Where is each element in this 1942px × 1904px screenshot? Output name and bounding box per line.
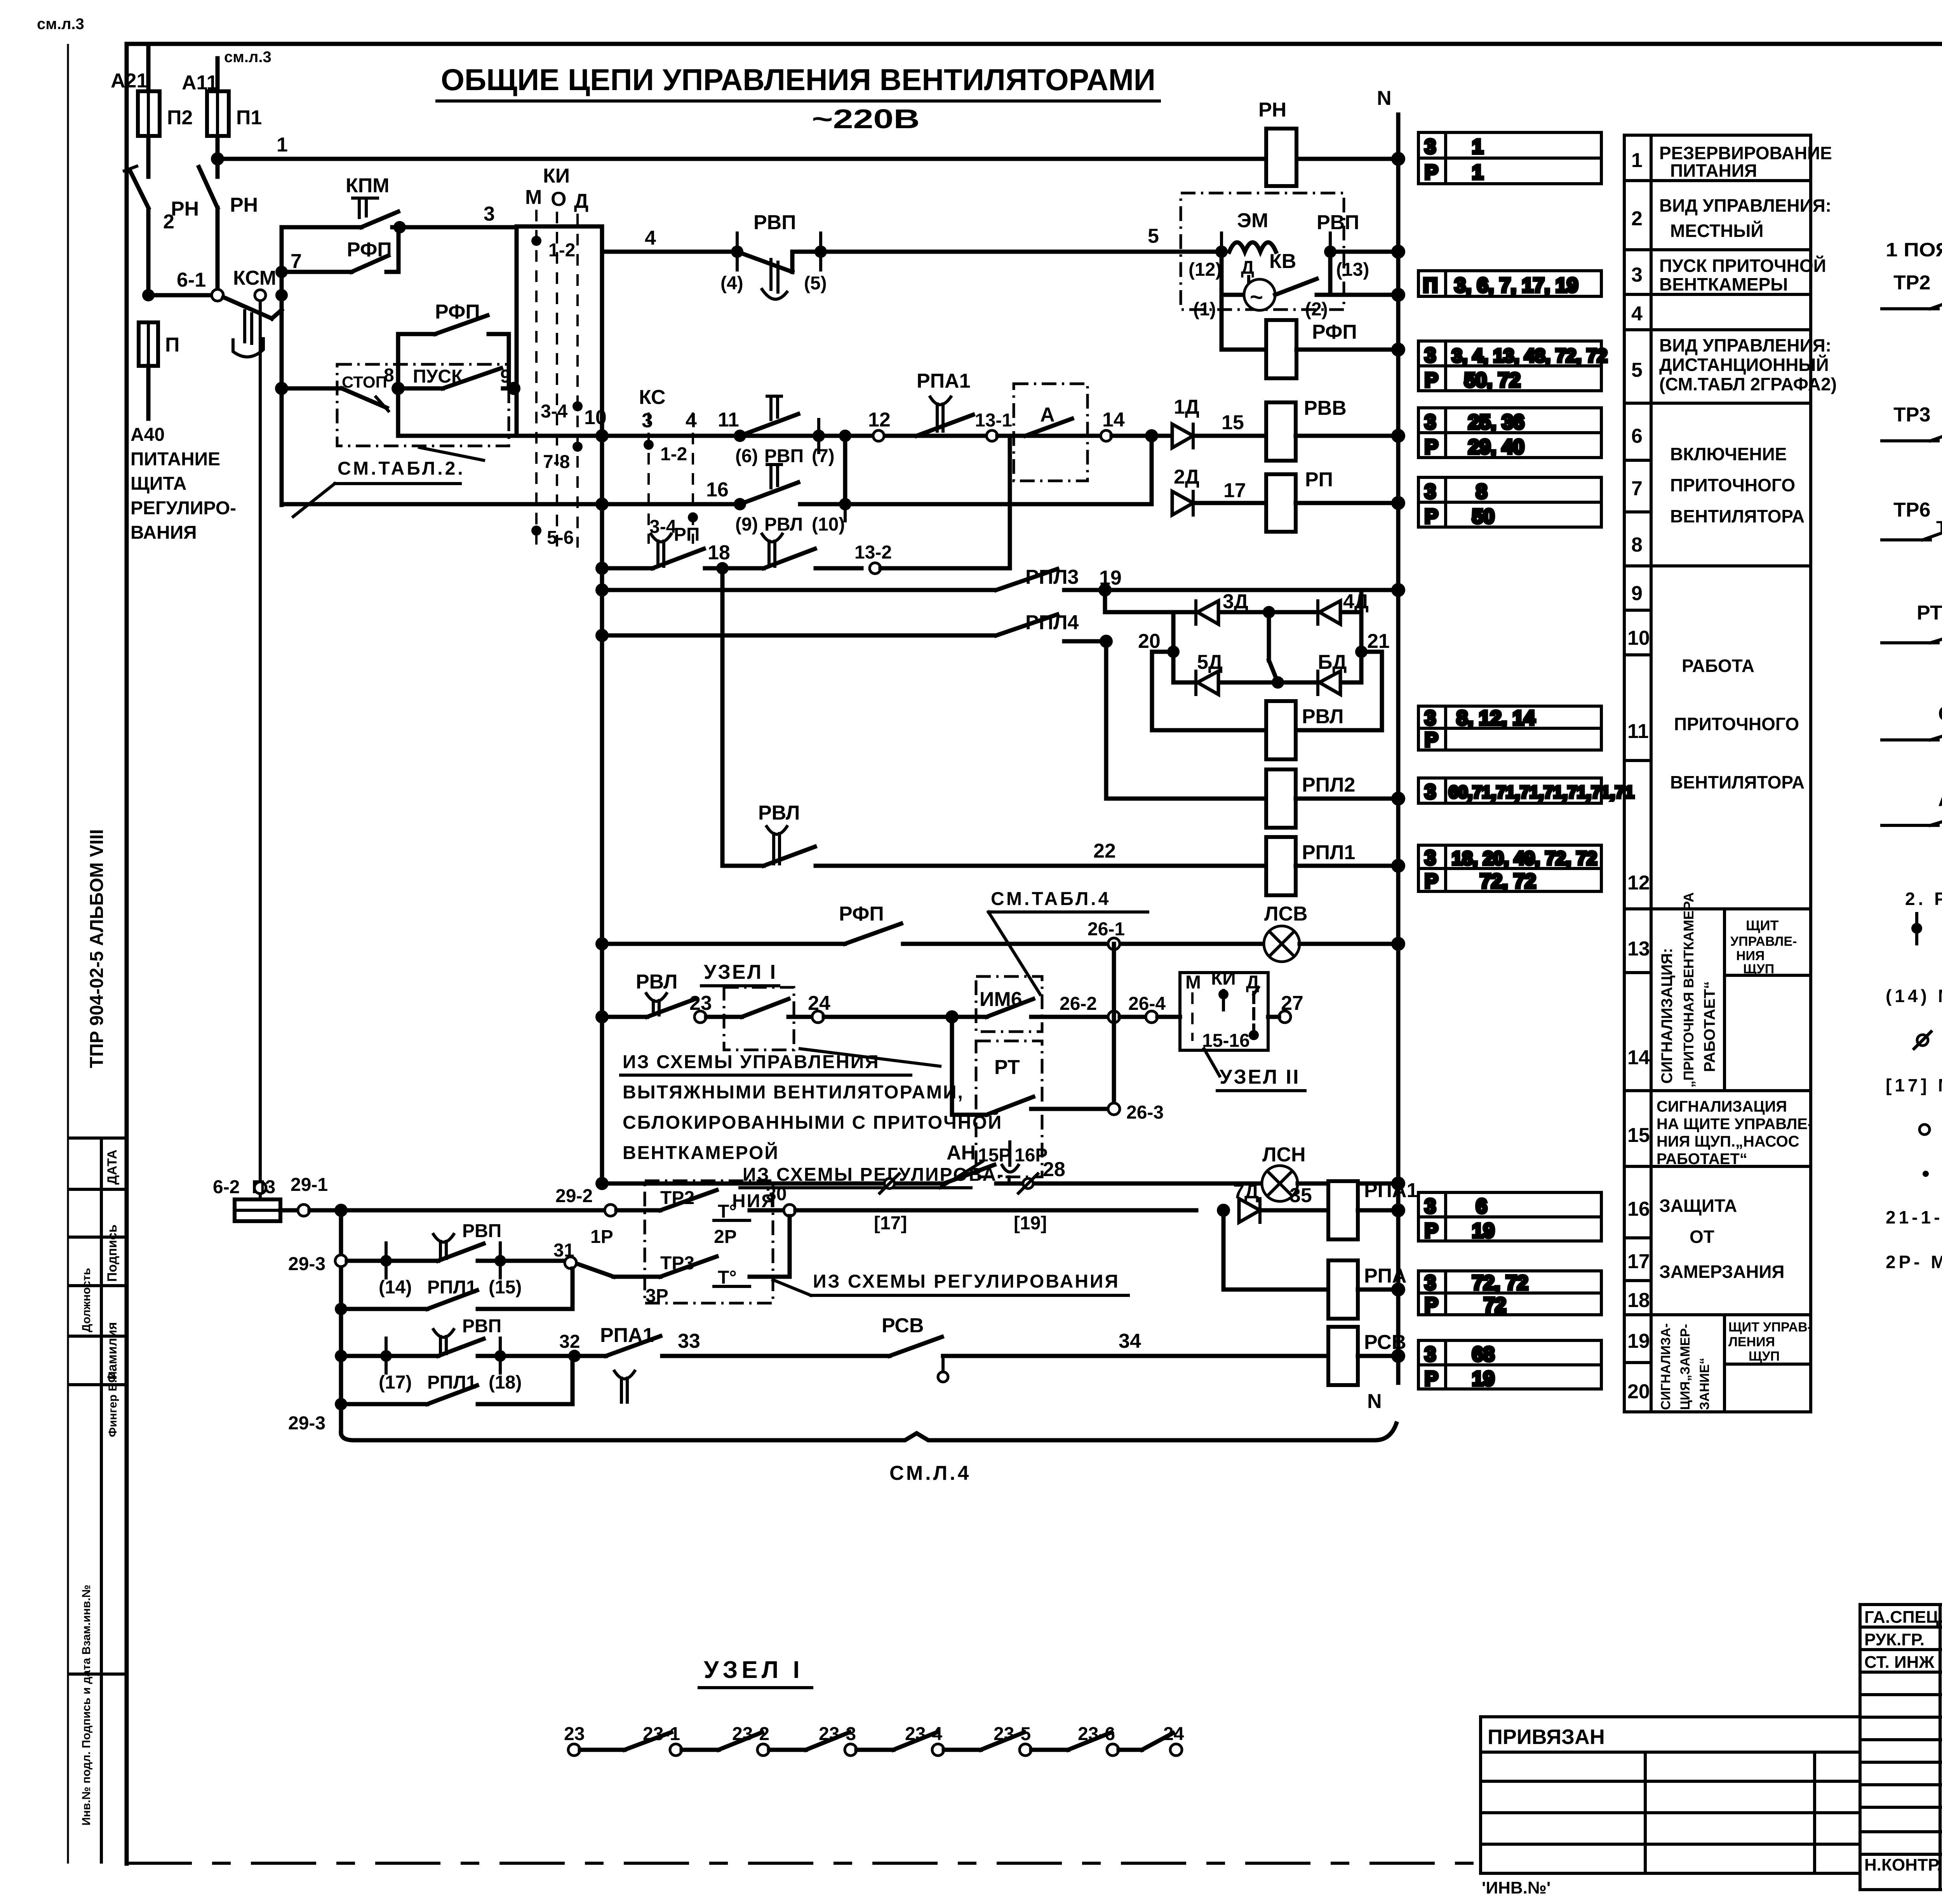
wire 2Д branch (1150, 436, 1154, 503)
svg-text:(6): (6) (735, 446, 758, 466)
contact РПЛ1 bypass a (335, 1269, 573, 1315)
wire line 1 (218, 157, 1398, 161)
svg-text:11: 11 (1627, 720, 1649, 743)
svg-text:26-3: 26-3 (1126, 1102, 1164, 1123)
svg-text:А40: А40 (131, 425, 165, 445)
svg-text:КИ: КИ (1211, 968, 1236, 989)
svg-text:26-2: 26-2 (1060, 994, 1097, 1014)
svg-text:ОТ: ОТ (1690, 1227, 1714, 1247)
node ИМ6 (945, 1010, 959, 1023)
table net6 (1418, 706, 1601, 750)
legend contact А (1882, 788, 1942, 825)
relay coil РВВ (1266, 397, 1347, 461)
relay coil РПЛ2 (1266, 769, 1355, 828)
svg-text:КС: КС (639, 386, 666, 409)
fuse П1 (207, 91, 262, 136)
svg-text:Д: Д (574, 190, 588, 212)
annotation см.табл.2 (293, 447, 484, 517)
svg-text:4Д: 4Д (1343, 590, 1369, 613)
terminal 29-2 (555, 1186, 660, 1216)
svg-text:16: 16 (706, 479, 729, 501)
legend symbol ø (1914, 1032, 1931, 1049)
node 6-1 (142, 269, 223, 301)
svg-text:20: 20 (1138, 630, 1161, 653)
svg-text:G: G (1938, 703, 1942, 725)
dashed box стоп-пуск (337, 364, 509, 446)
svg-text:СМ.Л.4: СМ.Л.4 (889, 1462, 971, 1485)
svg-text:А: А (1040, 404, 1055, 426)
diode 3Д (1196, 590, 1248, 624)
wire rung 10 (517, 406, 1169, 442)
svg-text:ЦИЯ„ЗАМЕР-: ЦИЯ„ЗАМЕР- (1678, 1324, 1693, 1410)
svg-text:50, 72: 50, 72 (1464, 369, 1521, 392)
svg-text:3Р: 3Р (646, 1286, 668, 1306)
svg-text:РУК.ГР.: РУК.ГР. (1864, 1630, 1925, 1649)
svg-text:МЕСТНЫЙ: МЕСТНЫЙ (1670, 221, 1764, 241)
svg-text:6-2: 6-2 (213, 1177, 240, 1197)
node 8a junction (393, 221, 406, 233)
box ТР2 ТР3 (645, 1181, 773, 1303)
svg-text:РВЛ: РВЛ (758, 802, 800, 824)
box РВП electromagnet (1181, 193, 1359, 310)
svg-text:35: 35 (1289, 1184, 1312, 1207)
relay coil РПА1 (1328, 1179, 1418, 1239)
contact РСВ rung32 (882, 1314, 1328, 1382)
terminal 13-2 (854, 436, 1010, 574)
legend section 2 (1886, 889, 1942, 1272)
svg-text:3: 3 (1425, 480, 1436, 503)
svg-text:3: 3 (1425, 344, 1436, 367)
svg-text:РВЛ: РВЛ (1302, 705, 1343, 728)
contact РП rung18 (651, 524, 730, 574)
wire rung 18 (595, 562, 653, 575)
svg-text:N: N (1377, 87, 1392, 110)
svg-text:РПА1: РПА1 (1364, 1179, 1418, 1202)
svg-text:РАБОТАЕТ“: РАБОТАЕТ“ (1701, 981, 1718, 1072)
svg-text:3: 3 (484, 203, 495, 225)
svg-text:(14) МАРКИРОВКА ЗАЖИМА РЕЛЕ В: (14) МАРКИРОВКА ЗАЖИМА РЕЛЕ ВРЕМЕНИ (1886, 986, 1942, 1006)
svg-text:20: 20 (1627, 1380, 1650, 1403)
zone 15 text (1657, 1098, 1813, 1168)
node 1Д (1145, 429, 1158, 442)
svg-text:НИЯ: НИЯ (1736, 949, 1765, 963)
svg-text:(10): (10) (812, 514, 845, 535)
svg-text:(СМ.ТАБЛ 2ГРАФА2): (СМ.ТАБЛ 2ГРАФА2) (1659, 374, 1837, 394)
svg-text:1: 1 (1631, 149, 1643, 172)
node 1 (211, 134, 288, 165)
diode БД (1318, 651, 1347, 694)
svg-text:РТ: РТ (1917, 602, 1942, 624)
svg-text:РФП: РФП (1312, 321, 1357, 343)
legend symbol . (1923, 1171, 1929, 1177)
svg-text:РВП: РВП (753, 211, 796, 234)
svg-text:1 ПОЯСНЕНИЕ РАБОТЫ КОНТАКТОВ Д: 1 ПОЯСНЕНИЕ РАБОТЫ КОНТАКТОВ ДАТЧИКОВ: (1886, 239, 1942, 261)
contact РВП line5 (720, 211, 827, 299)
svg-text:РСВ: РСВ (882, 1314, 924, 1337)
svg-text:ЗАНИЕ“: ЗАНИЕ“ (1697, 1358, 1712, 1410)
switch КИ box (517, 165, 602, 548)
svg-text:3: 3 (1425, 411, 1436, 433)
svg-text:„ПРИТОЧНАЯ ВЕНТКАМЕРА: „ПРИТОЧНАЯ ВЕНТКАМЕРА (1681, 892, 1697, 1088)
lamp ЛСН (1262, 1143, 1398, 1201)
svg-text:1Р: 1Р (590, 1227, 613, 1247)
svg-text:15: 15 (1222, 411, 1244, 434)
svg-text:29-1: 29-1 (291, 1175, 328, 1195)
svg-text:Р: Р (1425, 729, 1438, 751)
svg-text:2: 2 (1631, 207, 1643, 230)
svg-text:РАБОТАЕТ“: РАБОТАЕТ“ (1657, 1150, 1747, 1168)
svg-text:(13): (13) (1336, 259, 1369, 280)
contact РВП rung29-3b (379, 1316, 574, 1393)
relay coil РФП (1266, 320, 1357, 378)
node 29 bus top (334, 1204, 348, 1217)
svg-text:ВЕНТКАМЕРЫ: ВЕНТКАМЕРЫ (1659, 274, 1788, 294)
fuse П lower (139, 322, 179, 419)
table net7 (1418, 778, 1601, 803)
wire rung 29-3a (347, 1243, 438, 1278)
wire 26 vertical (1112, 944, 1116, 1109)
contact АН (944, 1142, 1262, 1183)
table net3 (1418, 341, 1601, 391)
title block left column texts (1864, 1607, 1942, 1874)
svg-text:8, 12, 14: 8, 12, 14 (1456, 707, 1535, 729)
svg-text:3, 6, 7, 17, 19: 3, 6, 7, 17, 19 (1455, 274, 1578, 297)
terminal 24 (808, 992, 952, 1023)
legend contact ТР2 (1882, 272, 1942, 309)
svg-text:БД: БД (1318, 651, 1347, 674)
wire branch to N (1330, 293, 1398, 297)
svg-text:Инв.№ подл. Подпись и дата: Инв.№ подл. Подпись и дата Взам.инв.№ (80, 1585, 93, 1826)
svg-text:(18): (18) (489, 1372, 522, 1393)
wire rung 3 (282, 203, 517, 272)
svg-text:КВ: КВ (1269, 250, 1296, 273)
svg-text:3: 3 (1425, 1195, 1436, 1218)
svg-text:см.л.3: см.л.3 (37, 16, 84, 33)
note из схемы регулирования2 (732, 1161, 1004, 1211)
contact КИ 7-8 (543, 442, 583, 472)
contact РВЛ rung22 (758, 802, 1266, 866)
svg-text:72: 72 (1484, 1294, 1506, 1316)
wire rung П3 (213, 1177, 266, 1197)
svg-text:21-1- МАРКИРОВКА КЛЕММЫ (ГЕНЕР: 21-1- МАРКИРОВКА КЛЕММЫ (ГЕНЕРАЛЬНАЯ) (1886, 1207, 1942, 1227)
terminal 13-1 (975, 410, 1012, 441)
svg-text:19: 19 (1472, 1220, 1495, 1242)
svg-text:6: 6 (1476, 1195, 1487, 1218)
svg-text:РН: РН (1258, 99, 1286, 121)
svg-text:ВКЛЮЧЕНИЕ: ВКЛЮЧЕНИЕ (1670, 444, 1787, 464)
svg-text:см.л.3: см.л.3 (224, 49, 271, 66)
svg-text:СБЛОКИРОВАННЫМИ С ПРИТОЧНОЙ: СБЛОКИРОВАННЫМИ С ПРИТОЧНОЙ (623, 1112, 1002, 1133)
wire rung 29-3b (335, 1338, 438, 1373)
wire 6-2 vertical (259, 301, 262, 1199)
wire РПА1 to N (1358, 1208, 1398, 1213)
svg-text:(7): (7) (812, 446, 835, 466)
table net11 (1418, 1340, 1601, 1389)
svg-text:ПРИВЯЗАН: ПРИВЯЗАН (1488, 1725, 1605, 1749)
svg-text:12: 12 (1627, 872, 1650, 894)
svg-text:Подпись: Подпись (105, 1224, 120, 1282)
table net10 (1418, 1271, 1601, 1315)
svg-text:32: 32 (559, 1331, 580, 1352)
svg-text:3: 3 (1425, 847, 1436, 869)
svg-text:'ИНВ.№': 'ИНВ.№' (1482, 1878, 1550, 1897)
contact РН right (199, 167, 258, 216)
contact КСМ (223, 267, 288, 388)
svg-text:[17] МАРКИРОВКА КЛЕММЫ БЛОКА У: [17] МАРКИРОВКА КЛЕММЫ БЛОКА УПРАВЛЕНИЯ (1886, 1075, 1942, 1095)
svg-text:(1): (1) (1193, 299, 1216, 320)
svg-text:КИ: КИ (543, 165, 570, 187)
wire РПЛ1 to N (1296, 864, 1398, 868)
diode 5Д (1196, 651, 1223, 694)
svg-text:1: 1 (1472, 136, 1483, 158)
svg-text:8: 8 (384, 365, 394, 386)
svg-text:М: М (1185, 972, 1201, 993)
svg-text:РВП: РВП (1317, 211, 1359, 234)
svg-text:ВЕНТИЛЯТОРА: ВЕНТИЛЯТОРА (1670, 772, 1805, 792)
svg-text:П2: П2 (167, 106, 193, 129)
svg-text:П1: П1 (236, 106, 262, 129)
svg-text:1: 1 (277, 134, 288, 156)
svg-text:6-1: 6-1 (177, 269, 206, 291)
svg-text:ЛЕНИЯ: ЛЕНИЯ (1728, 1335, 1775, 1349)
diode 1Д (1172, 396, 1266, 448)
svg-text:СМ.ТАБЛ.2.: СМ.ТАБЛ.2. (338, 458, 465, 479)
wire rung 31 (553, 1240, 660, 1277)
box ИМ6 contact (952, 976, 1108, 1032)
svg-text:ТР3: ТР3 (1893, 404, 1930, 426)
svg-text:10: 10 (584, 406, 607, 429)
label Д arrow (1241, 258, 1254, 293)
svg-text:РАБОТА: РАБОТА (1682, 656, 1754, 676)
svg-text:26-4: 26-4 (1128, 994, 1166, 1014)
wire bridge top (1105, 590, 1361, 618)
svg-text:(4): (4) (720, 273, 743, 294)
label Узел I (701, 961, 779, 986)
wire rung ЛСН (595, 1177, 944, 1190)
relay coil РН (1258, 99, 1296, 186)
узел I bottom (699, 1657, 812, 1688)
svg-text:10: 10 (1627, 627, 1650, 649)
svg-text:КПМ: КПМ (346, 174, 389, 197)
legend symbol dot-pin (1911, 914, 1922, 944)
svg-text:(12): (12) (1189, 259, 1222, 280)
svg-text:РВВ: РВВ (1304, 397, 1347, 419)
wire РП to N (1296, 501, 1398, 505)
table net9 (1418, 1192, 1601, 1241)
label А40 питание щита регулирования (131, 425, 236, 543)
svg-text:7-8: 7-8 (543, 452, 570, 472)
svg-text:ПИТАНИЯ: ПИТАНИЯ (1670, 160, 1757, 181)
wire line5 to N (1330, 250, 1398, 254)
svg-text:18, 20, 49, 72, 72: 18, 20, 49, 72, 72 (1452, 848, 1597, 869)
wire left bus lower (600, 504, 604, 1183)
wire feeder A21 (146, 46, 151, 295)
svg-text:23-4: 23-4 (905, 1724, 942, 1744)
svg-text:ВАНИЯ: ВАНИЯ (131, 522, 197, 543)
terminal 29-1 (291, 1175, 341, 1216)
svg-text:(9): (9) (735, 514, 758, 535)
svg-text:ПРИТОЧНОГО: ПРИТОЧНОГО (1670, 475, 1795, 495)
svg-text:4: 4 (645, 227, 656, 249)
svg-text:ЭМ: ЭМ (1237, 209, 1268, 232)
legend symbol o (1919, 1124, 1930, 1135)
svg-text:2Р: 2Р (714, 1227, 737, 1247)
svg-text:29-3: 29-3 (288, 1254, 325, 1274)
svg-text:19: 19 (1627, 1330, 1650, 1352)
wire РВВ to N (1296, 434, 1398, 438)
svg-text:4: 4 (1631, 303, 1643, 325)
svg-text:Фингер В.И.: Фингер В.И. (106, 1368, 119, 1437)
table net4 (1418, 408, 1601, 458)
wire rung узел1 (595, 1010, 647, 1023)
box узел2 (1180, 968, 1268, 1051)
svg-text:РН: РН (171, 198, 199, 220)
svg-text:ТР2: ТР2 (1893, 272, 1930, 294)
wire rung РПЛ3 19 (595, 566, 1398, 597)
contact КИ 3-4 (541, 401, 583, 422)
see-sheet-3 notes (37, 16, 271, 66)
terminal 26-4 (1128, 994, 1180, 1023)
svg-text:Т°: Т° (1936, 518, 1942, 538)
svg-text:19: 19 (1472, 1368, 1495, 1390)
contact РПА1 rung32 (574, 1324, 889, 1402)
svg-text:ЛСН: ЛСН (1262, 1143, 1306, 1166)
svg-text:М: М (525, 186, 542, 209)
svg-text:СИГНАЛИЗА-: СИГНАЛИЗА- (1658, 1323, 1673, 1410)
svg-text:5: 5 (1631, 359, 1643, 381)
contact РВЛ rung узел1 (636, 971, 695, 1017)
note из схемы управления (621, 1049, 1002, 1163)
svg-text:ДИСТАНЦИОННЫЙ: ДИСТАНЦИОННЫЙ (1659, 355, 1829, 375)
svg-text:3: 3 (1425, 1343, 1436, 1366)
svg-text:ТР6: ТР6 (1893, 499, 1930, 521)
svg-text:13: 13 (1627, 938, 1650, 960)
svg-text:28: 28 (1043, 1158, 1065, 1181)
svg-text:ЗАЩИТА: ЗАЩИТА (1659, 1196, 1737, 1216)
node 32 (559, 1331, 581, 1362)
wire РПА rung (1223, 1210, 1328, 1290)
contact КИ 1-2 (531, 236, 575, 261)
title block main (1860, 1605, 1942, 1890)
svg-text:(17): (17) (379, 1372, 412, 1393)
node 13p (1324, 233, 1369, 280)
svg-text:Р: Р (1425, 1294, 1438, 1316)
svg-text:ЗАМЕРЗАНИЯ: ЗАМЕРЗАНИЯ (1659, 1262, 1785, 1282)
svg-text:9: 9 (1631, 582, 1643, 605)
svg-text:РВЛ: РВЛ (764, 514, 803, 535)
svg-text:НИЯ ЩУП.„НАСОС: НИЯ ЩУП.„НАСОС (1657, 1133, 1799, 1150)
wire 29 bus (339, 1210, 343, 1433)
svg-text:ВЕНТКАМЕРОЙ: ВЕНТКАМЕРОЙ (623, 1142, 779, 1163)
marking tables next to N bus (1418, 132, 1634, 1390)
svg-text:ИЗ СХЕМЫ РЕГУЛИРОВАНИЯ: ИЗ СХЕМЫ РЕГУЛИРОВАНИЯ (813, 1271, 1120, 1292)
table net8 (1418, 845, 1601, 891)
svg-text:УЗЕЛ I: УЗЕЛ I (704, 1657, 804, 1683)
svg-text:ПИТАНИЕ: ПИТАНИЕ (131, 449, 220, 470)
contact РВП rung10 (734, 396, 835, 466)
wire rung 30 (341, 1208, 605, 1213)
svg-text:3: 3 (1425, 1272, 1436, 1294)
svg-text:29-2: 29-2 (555, 1186, 593, 1206)
contact РВЛ rung18 (722, 534, 861, 568)
svg-text:Должность: Должность (80, 1268, 93, 1332)
svg-text:23-3: 23-3 (819, 1724, 856, 1744)
wire rung ЛСВ (595, 937, 845, 950)
svg-text:А21: А21 (111, 70, 148, 92)
svg-text:5: 5 (1148, 225, 1159, 247)
svg-text:50: 50 (1472, 505, 1495, 528)
svg-text:РПЛ1: РПЛ1 (1302, 841, 1355, 864)
pushbutton пуск (398, 366, 514, 388)
svg-text:22: 22 (1093, 840, 1116, 862)
wire РСВ to N (1358, 1354, 1398, 1358)
svg-text:А: А (1938, 788, 1942, 811)
terminal 27 (1268, 992, 1303, 1023)
sidebar column (68, 829, 127, 1864)
wire bypass to KI (398, 388, 517, 436)
contact КВ (1269, 250, 1330, 320)
svg-text:Р: Р (1425, 505, 1438, 528)
svg-text:1: 1 (1472, 161, 1483, 184)
svg-text:23-6: 23-6 (1078, 1724, 1115, 1744)
annotation см.табл.4 (988, 889, 1148, 994)
legend contact ТР6 (1882, 499, 1942, 540)
contact ТР3 (646, 1216, 790, 1306)
wire РФП coil feed (1222, 295, 1266, 350)
node bracket 7-10 (839, 430, 851, 504)
svg-text:УЗЕЛ I: УЗЕЛ I (704, 961, 777, 983)
svg-text:(2): (2) (1305, 299, 1328, 320)
box узел1 contact (706, 987, 812, 1050)
svg-text:24: 24 (1163, 1724, 1184, 1744)
svg-text:1-2: 1-2 (548, 240, 575, 261)
wire line 5 (821, 225, 1222, 252)
svg-text:2. РАСШИФРОВКА УСЛОВНОГО ОБОЗ: 2. РАСШИФРОВКА УСЛОВНОГО ОБОЗНАЧЕНИЯ (1905, 889, 1942, 909)
svg-text:Р: Р (1425, 1220, 1438, 1242)
contact ТР2 (590, 1188, 784, 1247)
svg-text:2Д: 2Д (1174, 466, 1199, 488)
svg-text:Р: Р (1425, 870, 1438, 893)
table net5 (1418, 477, 1601, 527)
svg-text:16: 16 (1627, 1198, 1650, 1220)
svg-text:ЛСВ: ЛСВ (1264, 903, 1308, 925)
wire РВЛ loop (1152, 652, 1382, 730)
svg-text:РН: РН (230, 194, 258, 216)
svg-text:ГА.СПЕЦ.: ГА.СПЕЦ. (1864, 1608, 1942, 1627)
contact РФП bypass (398, 301, 509, 388)
svg-text:15-16: 15-16 (1202, 1030, 1250, 1051)
contact РВП rung29-3a (379, 1221, 571, 1298)
svg-text:29-3: 29-3 (288, 1413, 325, 1434)
svg-text:7: 7 (291, 250, 302, 273)
svg-text:3Д: 3Д (1223, 590, 1248, 613)
wire РПЛ2 rung (1106, 641, 1266, 799)
svg-text:3-4: 3-4 (541, 401, 568, 422)
contact РФП upper (282, 227, 398, 272)
contact РПЛ1 bypass b (335, 1362, 573, 1410)
svg-text:ЩУП: ЩУП (1743, 962, 1774, 976)
svg-text:14: 14 (1102, 409, 1125, 431)
legend contact РТ (1882, 602, 1942, 643)
contact КПМ (346, 174, 398, 227)
terminal 29-3 (288, 1254, 347, 1274)
box А with contact (997, 384, 1101, 481)
wire line 4 (602, 227, 737, 252)
terminal 31b (565, 1257, 576, 1269)
svg-text:1Д: 1Д (1174, 396, 1199, 418)
wire motor branch (1193, 252, 1330, 320)
table net1 (1418, 132, 1601, 184)
